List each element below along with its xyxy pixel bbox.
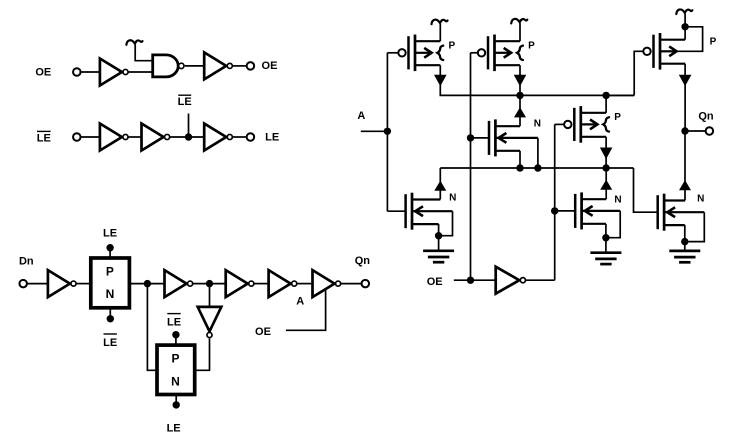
svg-text:P: P xyxy=(614,112,621,123)
svg-text:LE: LE xyxy=(103,227,117,239)
svg-text:LE: LE xyxy=(103,337,117,349)
svg-text:LE: LE xyxy=(167,422,181,434)
svg-text:P: P xyxy=(528,41,535,52)
svg-text:A: A xyxy=(296,295,304,307)
svg-text:Dn: Dn xyxy=(19,256,34,268)
svg-text:N: N xyxy=(171,374,180,388)
svg-text:OE: OE xyxy=(255,326,271,338)
svg-text:P: P xyxy=(106,265,114,279)
svg-text:P: P xyxy=(171,352,179,366)
svg-text:LE: LE xyxy=(178,96,192,108)
svg-text:LE: LE xyxy=(167,316,181,328)
svg-text:N: N xyxy=(697,193,704,204)
svg-text:N: N xyxy=(614,195,621,206)
svg-text:LE: LE xyxy=(37,132,51,144)
svg-text:Qn: Qn xyxy=(698,111,714,123)
svg-text:N: N xyxy=(449,193,456,204)
svg-text:Qn: Qn xyxy=(355,255,371,267)
svg-text:OE: OE xyxy=(35,67,51,79)
svg-text:A: A xyxy=(357,110,365,122)
svg-text:P: P xyxy=(710,36,717,47)
svg-text:N: N xyxy=(534,119,541,130)
svg-text:N: N xyxy=(106,287,115,301)
svg-text:P: P xyxy=(448,41,455,52)
svg-text:OE: OE xyxy=(262,60,278,72)
svg-text:OE: OE xyxy=(427,276,443,288)
svg-text:LE: LE xyxy=(265,132,279,144)
